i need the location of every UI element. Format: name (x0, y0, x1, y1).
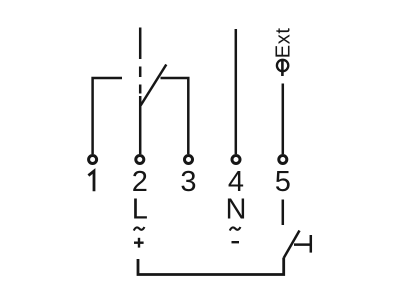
terminal 2 (136, 156, 144, 164)
wire terminal 5 lower stub (282, 200, 285, 226)
terminal 3 (185, 156, 193, 164)
push-button actuator rod (294, 243, 311, 246)
switch blade S1 (141, 65, 167, 106)
wire terminal 2 riser (139, 96, 142, 154)
wire terminal 4 riser (N) (235, 29, 238, 154)
svg-text:N: N (226, 194, 247, 226)
terminal 5 (279, 156, 287, 164)
push-button blade S2 (284, 231, 300, 259)
svg-text:Ext: Ext (273, 27, 295, 58)
label plus under L (134, 238, 144, 248)
wire terminal 3 riser and right contact (161, 78, 189, 154)
mechanical linkage (dashed) (139, 28, 142, 94)
label 1 (88, 171, 94, 191)
terminal 4 (232, 156, 240, 164)
wire terminal 1 riser and left contact (93, 78, 122, 154)
svg-text:5: 5 (275, 166, 291, 198)
bottom wire (138, 258, 284, 275)
svg-text:L: L (132, 194, 148, 226)
label tilde under L (134, 227, 145, 231)
wire terminal 5 riser (282, 84, 285, 155)
label minus under N (232, 241, 240, 243)
label tilde under N (230, 227, 241, 231)
terminal 1 (89, 156, 97, 164)
push-button actuator bar (310, 235, 313, 253)
svg-text:3: 3 (180, 166, 196, 198)
external button symbol: pole (281, 61, 284, 76)
external button symbol: circle (277, 60, 288, 71)
